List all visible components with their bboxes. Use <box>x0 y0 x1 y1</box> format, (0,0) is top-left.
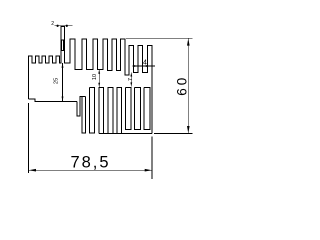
lower fin f8 (free rectangle) <box>144 87 150 129</box>
lower fin f7 (free rectangle) <box>135 87 141 129</box>
lower fin f3 on plate <box>99 87 104 133</box>
svg-text:60: 60 <box>175 75 190 96</box>
dimension 4 <box>133 65 156 67</box>
hook notch at block bottom <box>77 96 86 116</box>
svg-text:2: 2 <box>51 21 54 27</box>
lower fin f6 (free rectangle) <box>126 87 132 129</box>
lower fin f5 on plate <box>117 87 121 133</box>
dimension 25 <box>62 63 64 102</box>
dimension 7 <box>130 72 132 86</box>
dimension 60 <box>126 38 193 133</box>
screw channel in chimney fin <box>61 40 64 51</box>
lower fin f2 (free rectangle) <box>90 87 95 133</box>
heatsink upper profile outline <box>29 26 153 133</box>
heatsink left block bottom edge with step <box>29 99 77 102</box>
bottom plate <box>99 132 152 134</box>
lower fin f1 (free rectangle) <box>82 96 86 133</box>
svg-text:4: 4 <box>143 59 147 66</box>
svg-text:7: 7 <box>128 78 134 81</box>
svg-text:10: 10 <box>92 74 98 80</box>
lower fin f4 on plate <box>108 87 113 133</box>
dimension 10 <box>98 69 100 87</box>
svg-text:78,5: 78,5 <box>70 153 110 171</box>
dimension 2 <box>55 25 73 27</box>
dimension 78,5 <box>29 103 153 179</box>
svg-text:25: 25 <box>54 78 60 84</box>
